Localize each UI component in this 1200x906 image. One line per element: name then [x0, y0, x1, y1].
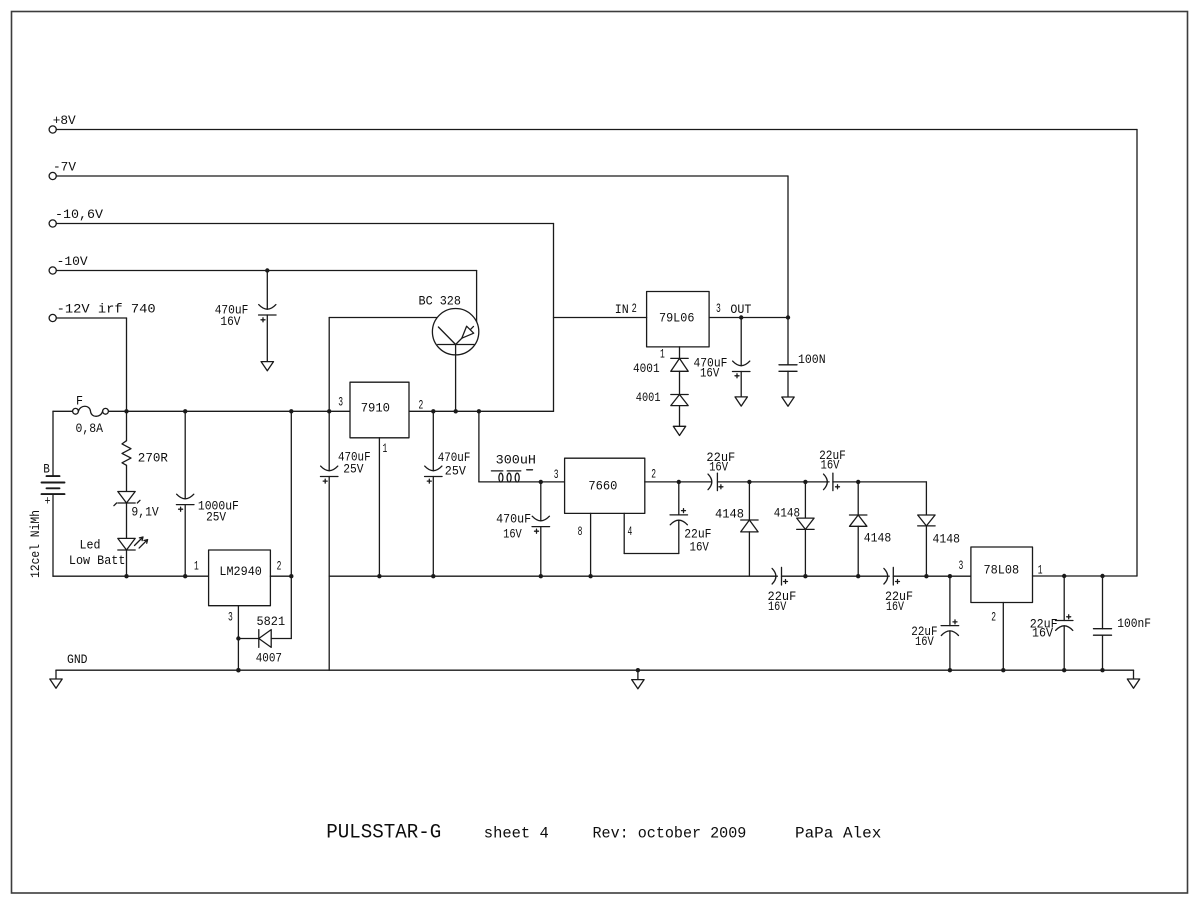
- node D5 bottom junction: [856, 574, 860, 578]
- svg-text:100N: 100N: [798, 352, 826, 367]
- Q1 arrow (PNP): [462, 326, 474, 338]
- node C11 junction: [948, 574, 952, 578]
- terminal -7V: [49, 172, 56, 179]
- wire C14 to ground: [740, 372, 742, 397]
- regulator U2 7910: [350, 382, 409, 438]
- svg-text:7660: 7660: [588, 479, 617, 494]
- svg-text:78L08: 78L08: [984, 563, 1020, 578]
- wire C3 to GND rail: [328, 477, 330, 671]
- wire GND mid rail: [329, 575, 777, 577]
- node LM2940 pin2 riser junction: [289, 409, 293, 413]
- fuse F 0,8A: [73, 408, 79, 414]
- ground symbol GND middle: [636, 668, 640, 672]
- terminal +8V: [49, 126, 56, 133]
- node 7910 pin3 / BC328 base junction: [327, 409, 331, 413]
- wire C12 to GND rail: [1063, 626, 1065, 670]
- svg-text:3: 3: [959, 558, 964, 573]
- capacitor C13 100nF: [1102, 576, 1104, 629]
- capacitor C3 470uF 25V at 7910 input: [328, 411, 330, 470]
- svg-text:PULSSTAR-G: PULSSTAR-G: [326, 822, 441, 845]
- svg-text:4148: 4148: [933, 532, 961, 547]
- node 78L08 pin2 GND junction: [1001, 668, 1005, 672]
- wire -7V drop: [787, 176, 789, 318]
- wire 79L06 OUT rail: [709, 317, 788, 319]
- inductor L1 300uH: [479, 481, 565, 483]
- node C12 junction: [1062, 574, 1066, 578]
- node pin2 riser junction: [289, 574, 293, 578]
- svg-text:-12V irf 740: -12V irf 740: [57, 301, 156, 316]
- wire 7660 pin2 pump rail: [645, 481, 712, 483]
- ground symbol below C15: [782, 397, 794, 406]
- wire D8 to ground: [679, 406, 681, 427]
- svg-text:LM2940: LM2940: [219, 564, 262, 579]
- capacitor C1 470uF 16V on -10V rail: [266, 271, 268, 310]
- svg-text:-10,6V: -10,6V: [55, 207, 103, 222]
- ground symbol GND right: [1133, 670, 1135, 679]
- svg-text:-10V: -10V: [57, 254, 88, 269]
- svg-text:Rev: october 2009: Rev: october 2009: [593, 825, 747, 843]
- svg-text:OUT: OUT: [730, 302, 751, 317]
- svg-text:0,8A: 0,8A: [76, 421, 104, 436]
- svg-text:16V: 16V: [915, 634, 934, 649]
- svg-text:16V: 16V: [709, 460, 728, 475]
- node -7V junction at OUT: [786, 315, 790, 319]
- diode D6 4148: [918, 515, 935, 526]
- wire Q1 base riser: [328, 318, 330, 412]
- ground symbol below 4001: [673, 426, 685, 435]
- svg-text:100nF: 100nF: [1117, 616, 1151, 631]
- wire low rail segment 3 to 78L08 pin3: [893, 575, 971, 577]
- wire -10,6V rail: [56, 223, 553, 225]
- battery B 12cel NiMh: [52, 411, 54, 476]
- svg-text:-7V: -7V: [53, 159, 76, 174]
- svg-text:1: 1: [660, 347, 665, 362]
- svg-text:2: 2: [419, 398, 424, 413]
- wire 78L08 pin1 output rail: [1033, 575, 1138, 577]
- diode D8 4001: [671, 394, 688, 396]
- svg-text:1: 1: [1038, 563, 1043, 578]
- node -10V / 470uF junction: [265, 268, 269, 272]
- wire +8V right drop: [1136, 130, 1138, 577]
- svg-text:4: 4: [628, 524, 633, 539]
- svg-text:3: 3: [716, 301, 721, 316]
- svg-text:Low Batt: Low Batt: [69, 553, 126, 568]
- node D5 top junction: [856, 480, 860, 484]
- svg-text:300uH: 300uH: [496, 453, 536, 468]
- svg-text:Led: Led: [80, 538, 101, 553]
- wire +batt bottom rail: [53, 575, 209, 577]
- transistor Q1 BC 328: [432, 309, 478, 355]
- node BC328 emitter junction: [454, 409, 458, 413]
- wire 7660 pin8 to GND: [590, 513, 592, 576]
- node 100nF junction: [1100, 574, 1104, 578]
- wire +8V rail: [56, 129, 1137, 131]
- svg-text:sheet 4: sheet 4: [484, 825, 549, 843]
- zener diode D1 9,1V: [118, 492, 135, 504]
- wire C5 to GND rail: [540, 527, 542, 577]
- wire LM2940 pin2: [270, 575, 291, 577]
- svg-text:16V: 16V: [1032, 626, 1053, 641]
- wire -10V rail: [56, 270, 476, 272]
- wire -12V from terminal: [56, 317, 126, 319]
- svg-text:PaPa Alex: PaPa Alex: [795, 825, 881, 843]
- node LM2940 pin3 GND junction: [236, 668, 240, 672]
- wire 79L06 pin1: [679, 347, 681, 359]
- node 100nF GND junction: [1100, 668, 1104, 672]
- regulator U1 LM2940: [209, 550, 271, 606]
- svg-text:79L06: 79L06: [659, 311, 694, 326]
- svg-text:16V: 16V: [503, 527, 522, 542]
- svg-text:16V: 16V: [700, 366, 719, 381]
- node 7660 pin8 junction: [588, 574, 592, 578]
- svg-text:25V: 25V: [445, 463, 466, 478]
- regulator U4 78L08: [971, 547, 1033, 603]
- wire 7660 pin4: [623, 513, 625, 553]
- svg-text:+: +: [45, 494, 51, 509]
- wire C1 to ground: [266, 315, 268, 362]
- wire C11 to GND rail: [949, 631, 951, 670]
- node flying cap junction: [677, 480, 681, 484]
- wire -7V rail: [56, 175, 788, 177]
- wire low rail segment 2: [782, 575, 890, 577]
- svg-text:1: 1: [194, 558, 199, 573]
- wire 7910 pin1 to GND rail: [378, 438, 380, 576]
- wire -10V to BC328 collector: [476, 271, 478, 322]
- svg-text:4148: 4148: [715, 507, 744, 522]
- node LED junction: [124, 574, 128, 578]
- ground symbol GND left: [55, 670, 57, 679]
- svg-text:4001: 4001: [633, 361, 660, 376]
- svg-text:3: 3: [228, 609, 233, 624]
- svg-text:4007: 4007: [256, 650, 282, 665]
- terminal -12V irf 740: [49, 314, 56, 321]
- Q1 base wire: [329, 317, 436, 319]
- diode D5 4148: [857, 482, 859, 515]
- capacitor C8 22uF 16V series pump: [824, 474, 828, 490]
- svg-text:12cel NiMh: 12cel NiMh: [28, 510, 43, 578]
- wire pump rail segment 3: [833, 481, 927, 483]
- wire C6 to pump rail: [678, 482, 680, 515]
- capacitor C11 22uF 16V at 78L08 input: [949, 576, 951, 625]
- svg-text:7910: 7910: [361, 401, 390, 416]
- ground symbol below C14: [735, 397, 747, 406]
- Q1 base bar and emitter/collector strokes: [438, 326, 475, 344]
- node C5 junction: [539, 574, 543, 578]
- svg-text:270R: 270R: [138, 450, 168, 465]
- wire -12V main rail: [53, 410, 73, 412]
- capacitor C2 1000uF 25V: [184, 411, 186, 499]
- svg-text:5821: 5821: [257, 614, 286, 629]
- svg-text:4148: 4148: [774, 505, 800, 520]
- wire R1 to zener: [126, 465, 128, 491]
- node C4 junction: [431, 574, 435, 578]
- capacitor C7 22uF 16V series pump: [708, 474, 712, 490]
- node D3 top junction: [747, 480, 751, 484]
- capacitor C12 22uF 16V at 78L08 output: [1063, 576, 1065, 621]
- converter U3 7660: [565, 458, 645, 513]
- node D6 bottom junction: [924, 574, 928, 578]
- capacitor C15 100N: [787, 318, 789, 365]
- LED Led Low Batt: [118, 538, 135, 550]
- capacitor C5 470uF 16V at 7660 input: [540, 482, 542, 521]
- diode D4 4148: [804, 482, 806, 518]
- regulator U5 79L06: [647, 292, 710, 347]
- svg-text:F: F: [76, 394, 83, 409]
- svg-text:16V: 16V: [886, 599, 904, 614]
- node pin3 / GND junction: [236, 668, 240, 672]
- svg-text:16V: 16V: [768, 599, 786, 614]
- Q1 bottom pin wire: [455, 345, 457, 412]
- node C12 GND junction: [1062, 668, 1066, 672]
- node 1000uF junction: [183, 409, 187, 413]
- node inductor feed junction: [477, 409, 481, 413]
- wire LED to +batt rail: [126, 550, 128, 576]
- wire C4 to GND rail: [432, 477, 434, 577]
- wire inductor feed: [478, 411, 480, 482]
- resistor R1 270R: [126, 411, 128, 440]
- svg-text:25V: 25V: [206, 510, 226, 525]
- svg-text:B: B: [43, 461, 50, 476]
- node fuse/terminal junction: [124, 409, 128, 413]
- node 470uF 25V junction: [431, 409, 435, 413]
- svg-text:BC 328: BC 328: [419, 294, 461, 309]
- svg-text:16V: 16V: [821, 458, 840, 473]
- node 7910 pin1 junction: [377, 574, 381, 578]
- node D4 bottom junction: [803, 574, 807, 578]
- node 470uF/7660 pin3 junction: [539, 480, 543, 484]
- svg-text:4148: 4148: [864, 530, 892, 545]
- capacitor C9 22uF 16V series low rail: [772, 568, 776, 584]
- wire D7 to D8: [679, 371, 681, 394]
- node 1000uF bottom junction: [183, 574, 187, 578]
- svg-text:8: 8: [578, 524, 583, 539]
- diode D7 4001: [671, 357, 688, 359]
- svg-text:GND: GND: [67, 652, 88, 667]
- node pin3 / 5821 junction: [236, 636, 240, 640]
- svg-text:470uF: 470uF: [496, 512, 531, 527]
- wire GND rail: [56, 669, 1134, 671]
- wire LM2940 pin3: [237, 606, 239, 671]
- svg-text:25V: 25V: [343, 462, 363, 477]
- svg-text:1: 1: [383, 441, 388, 456]
- ground below C1: [261, 362, 273, 371]
- svg-text:2: 2: [991, 610, 996, 625]
- svg-text:16V: 16V: [690, 540, 710, 555]
- wire pump rail drop to D6: [925, 482, 927, 515]
- node 470uF junction at OUT: [739, 315, 743, 319]
- node D4 top junction: [803, 480, 807, 484]
- svg-text:3: 3: [554, 467, 559, 482]
- diode D3 4148: [748, 482, 750, 520]
- svg-text:16V: 16V: [220, 314, 240, 329]
- wire zener to LED: [126, 503, 128, 538]
- svg-text:3: 3: [338, 395, 343, 410]
- wire -10,6V drop: [553, 224, 555, 412]
- wire C2 to +batt rail: [184, 505, 186, 577]
- terminal -10,6V: [49, 220, 56, 227]
- capacitor C4 470uF 25V at 7910 output: [432, 411, 434, 470]
- svg-text:+8V: +8V: [53, 113, 76, 128]
- wire pump rail segment 2: [717, 481, 829, 483]
- capacitor C14 470uF 16V at 79L06 output: [740, 318, 742, 366]
- capacitor C10 22uF 16V series low rail: [884, 568, 888, 584]
- wire 78L08 pin2 to GND: [1002, 603, 1004, 671]
- wire C15 to ground: [787, 371, 789, 397]
- svg-text:4001: 4001: [636, 390, 661, 405]
- svg-text:2: 2: [277, 558, 282, 573]
- svg-text:9,1V: 9,1V: [131, 505, 159, 520]
- svg-text:IN: IN: [615, 302, 629, 317]
- wire LM2940 pin2 riser: [290, 411, 292, 638]
- svg-text:2: 2: [651, 467, 656, 482]
- capacitor C6 22uF 16V flying cap: [670, 514, 688, 516]
- svg-text:2: 2: [632, 301, 637, 316]
- terminal -10V: [49, 267, 56, 274]
- node C11 GND junction: [948, 668, 952, 672]
- diode D2 5821 / 4007: [238, 638, 258, 640]
- wire 79L06 IN: [554, 317, 647, 319]
